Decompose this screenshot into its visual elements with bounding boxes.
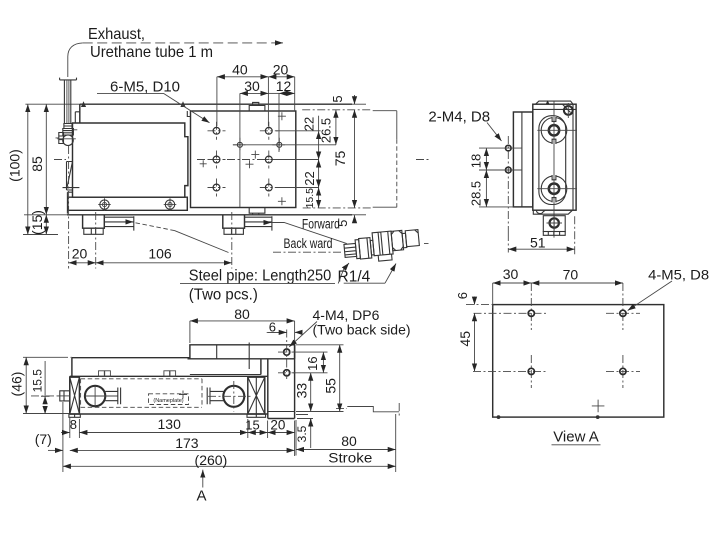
svg-text:18: 18 bbox=[468, 154, 483, 168]
svg-text:6-M5, D10: 6-M5, D10 bbox=[110, 79, 180, 96]
svg-text:Back ward: Back ward bbox=[284, 236, 333, 251]
svg-text:5: 5 bbox=[330, 95, 345, 102]
svg-text:Exhaust,: Exhaust, bbox=[88, 26, 145, 43]
svg-text:(15): (15) bbox=[29, 210, 45, 235]
svg-text:15.5: 15.5 bbox=[30, 369, 44, 393]
svg-text:(46): (46) bbox=[9, 372, 25, 397]
svg-text:33: 33 bbox=[293, 383, 309, 399]
svg-text:(Two pcs.): (Two pcs.) bbox=[189, 287, 258, 304]
svg-text:80: 80 bbox=[234, 306, 250, 322]
svg-text:15.5: 15.5 bbox=[304, 188, 316, 209]
svg-text:6: 6 bbox=[269, 319, 276, 334]
svg-text:106: 106 bbox=[148, 246, 172, 262]
svg-text:85: 85 bbox=[29, 156, 45, 172]
svg-text:2-M4, D8: 2-M4, D8 bbox=[428, 108, 490, 125]
svg-text:28.5: 28.5 bbox=[468, 181, 483, 206]
svg-text:51: 51 bbox=[530, 234, 546, 250]
svg-text:3.5: 3.5 bbox=[295, 425, 309, 442]
svg-text:Urethane tube 1 m: Urethane tube 1 m bbox=[90, 44, 213, 61]
svg-text:70: 70 bbox=[563, 267, 579, 283]
svg-text:5: 5 bbox=[335, 220, 350, 227]
svg-text:(7): (7) bbox=[35, 431, 52, 447]
svg-text:Stroke: Stroke bbox=[328, 450, 372, 465]
svg-text:20: 20 bbox=[270, 418, 285, 433]
svg-text:6: 6 bbox=[455, 292, 470, 299]
svg-text:(Nameplate): (Nameplate) bbox=[153, 398, 183, 404]
svg-text:130: 130 bbox=[158, 416, 182, 432]
svg-text:40: 40 bbox=[232, 61, 248, 77]
svg-text:30: 30 bbox=[503, 266, 519, 282]
svg-text:55: 55 bbox=[323, 378, 339, 394]
svg-text:26.5: 26.5 bbox=[319, 118, 334, 143]
svg-text:View A: View A bbox=[553, 429, 599, 446]
svg-text:8: 8 bbox=[70, 417, 77, 432]
svg-text:(Two back side): (Two back side) bbox=[313, 321, 411, 337]
svg-text:16: 16 bbox=[305, 356, 320, 370]
svg-text:A: A bbox=[196, 488, 206, 505]
svg-text:22: 22 bbox=[302, 117, 317, 131]
svg-text:(100): (100) bbox=[7, 149, 23, 182]
svg-text:(260): (260) bbox=[195, 452, 228, 468]
svg-text:80: 80 bbox=[341, 433, 357, 449]
svg-text:Steel pipe: Length250: Steel pipe: Length250 bbox=[189, 268, 332, 285]
svg-text:20: 20 bbox=[273, 61, 289, 77]
svg-text:30: 30 bbox=[244, 78, 260, 94]
svg-text:4-M5, D8: 4-M5, D8 bbox=[648, 266, 709, 282]
svg-text:15: 15 bbox=[245, 418, 259, 433]
svg-text:173: 173 bbox=[175, 435, 199, 451]
svg-text:20: 20 bbox=[72, 246, 88, 262]
svg-text:22: 22 bbox=[302, 171, 317, 185]
svg-text:12: 12 bbox=[276, 78, 292, 94]
svg-text:75: 75 bbox=[332, 151, 348, 167]
svg-text:45: 45 bbox=[457, 331, 473, 347]
